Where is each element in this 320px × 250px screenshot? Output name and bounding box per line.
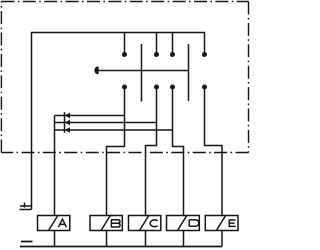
wire: stub to switch contact 1 top (124, 33, 126, 55)
enclosure dash-dot boundary (1, 2, 248, 153)
wire: box E to bus (221, 231, 223, 247)
label D (189, 220, 199, 227)
wire: pole 4 down to box E (205, 87, 223, 216)
switch moving bridge 1 (141, 44, 143, 102)
wire: line 2 to pole 2 (55, 122, 157, 124)
wire: stub to switch contact 2 top (156, 33, 158, 55)
contact dot lower 4 (202, 85, 207, 90)
connector plug contact arrow 2 (65, 120, 70, 125)
earth (ground) symbol (20, 203, 32, 210)
actuator head (manual drive cap) (94, 67, 98, 75)
contact dot lower 1 (122, 85, 127, 90)
switch actuator bar (98, 70, 189, 72)
wire: line 1 to pole 1 (55, 115, 125, 117)
contact dot upper 3 (170, 52, 175, 57)
connector plug contact arrow 1 (65, 113, 70, 118)
connector separation line (64, 112, 66, 133)
wire: box A to bus (54, 231, 56, 247)
switch moving bridge 2 (188, 44, 190, 101)
connector box B (90, 216, 122, 231)
contact dot upper 4 (202, 52, 207, 57)
connector box A (38, 216, 70, 231)
contact dot lower 3 (170, 85, 175, 90)
label B (111, 220, 120, 227)
connector box C (129, 216, 161, 231)
connector plug contact arrow 3 (65, 127, 70, 132)
label E (229, 220, 235, 226)
wire: earth rail, left side up and top rail across to right side (32, 33, 205, 210)
wire: box B to bus (106, 231, 108, 247)
wire: pole 2 down to box C (146, 87, 157, 216)
wire: line 3 to pole 3 (55, 129, 173, 131)
wire: pole 1 down to box B (107, 87, 125, 216)
wire: stub to switch contact 3 top (172, 33, 174, 55)
polarity dash mark (21, 241, 33, 243)
wire: box D to bus (183, 231, 185, 247)
label C (150, 220, 158, 227)
connector box D (167, 216, 200, 231)
wire: pole 3 down to box D (173, 87, 184, 216)
wire: down to box A (54, 116, 56, 216)
connector box E (205, 216, 238, 231)
contact dot upper 1 (122, 52, 127, 57)
label A (58, 219, 66, 227)
contact dot lower 2 (154, 85, 159, 90)
bottom bus wire (20, 246, 222, 248)
contact dot upper 2 (154, 52, 159, 57)
wire: box C to bus (145, 231, 147, 247)
